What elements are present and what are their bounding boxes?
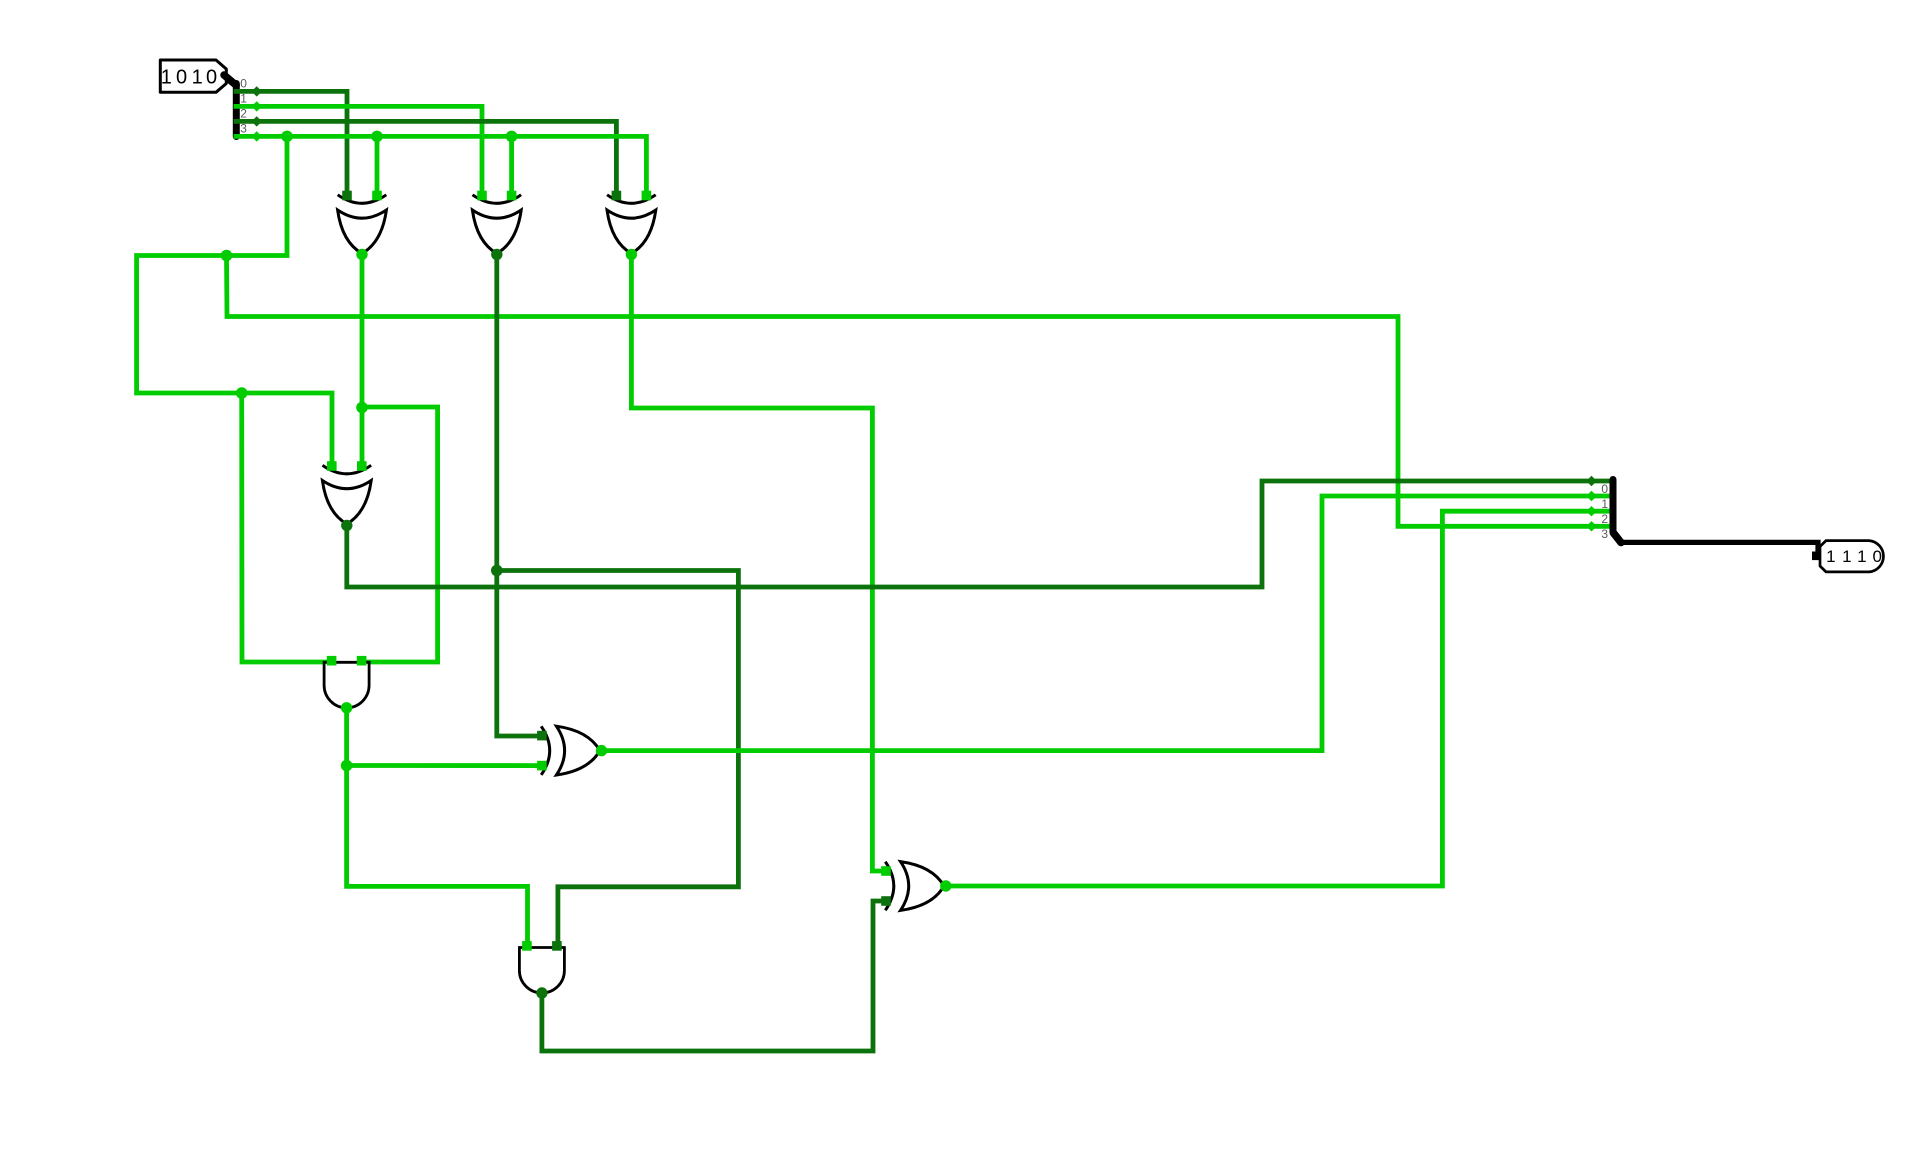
AND U8 input squares [522, 941, 562, 951]
svg-text:0: 0 [176, 67, 187, 89]
splitter S1 pin labels 0-3 [240, 76, 247, 135]
XOR U2 output dot [491, 249, 502, 260]
junction net-P at (241.7,393) [236, 387, 248, 399]
svg-text:0: 0 [240, 76, 247, 90]
wire net-B from XOR2 output down to XOR5 top input [497, 255, 541, 737]
svg-text:1: 1 [1842, 547, 1851, 566]
wire in3 branch to XOR1 right input [375, 136, 380, 197]
svg-text:1: 1 [1857, 547, 1866, 566]
AND U7 output dot [341, 702, 352, 713]
svg-text:0: 0 [1601, 482, 1608, 496]
wire in0 (bit0=0) from splitter to XOR1 left input [236, 91, 347, 197]
AND U8 output dot [536, 987, 547, 998]
junction in3 at (287,136) [281, 131, 293, 143]
XOR gate U5 (inputs net-B, net-F) [541, 726, 600, 775]
XOR U3 input squares [612, 191, 652, 201]
wire net-G (U5 out) to output splitter pin1 [602, 496, 1611, 751]
XOR U4 input squares [327, 461, 367, 471]
wire in2 (bit2=0) from splitter to XOR3 left input [236, 121, 616, 197]
XOR U5 output dot [596, 745, 607, 756]
wire in1 (bit1=1) from splitter to XOR2 left input [236, 106, 482, 197]
wire net-A branch right/down to AND1 right input [362, 407, 438, 662]
svg-text:2: 2 [1601, 512, 1608, 526]
svg-text:1: 1 [192, 67, 203, 89]
junction in3 at (377,136) [371, 131, 383, 143]
svg-text:1: 1 [1601, 497, 1608, 511]
wire in3 branch down at x=287 to left rail [137, 136, 332, 467]
splitter S1 pin1 diamond [252, 101, 262, 111]
XOR U6 input squares [881, 866, 891, 906]
junction net-A at (362,407.5) [356, 402, 368, 414]
XOR U2 input squares [477, 191, 516, 201]
XOR gate U4 (inputs net-P, net-A) [322, 465, 371, 524]
splitter S1 input bus stub (diagonal) [224, 75, 236, 85]
splitter S2 bar [1610, 480, 1617, 533]
svg-text:1: 1 [1826, 547, 1835, 566]
XOR gate U6 (inputs net-C, net-H) [885, 862, 944, 911]
wire net-F branch to XOR5 bottom input [347, 763, 541, 768]
wire net-P branch junction (241.7,393) down to AND1 left input [242, 393, 332, 662]
junction net-B at (497,570.5) [491, 565, 503, 577]
wire net-K (U6 out) to output splitter pin2 [946, 511, 1610, 886]
wire net-B branch to AND2 right input [497, 571, 739, 948]
AND gate U8 (inputs net-F, net-B) [519, 948, 564, 994]
junction in3 at (512,136) [506, 131, 518, 143]
output pin OUT value 1110 (capsule) [1820, 541, 1883, 572]
svg-text:3: 3 [1601, 527, 1608, 541]
splitter S2 pin labels 0-3 [1601, 482, 1608, 541]
wire in3 branch to XOR2 right input [509, 136, 514, 197]
XOR U4 output dot [341, 520, 352, 531]
splitter S2 pin diamonds [1586, 476, 1596, 532]
splitter S1 bar [233, 84, 240, 137]
svg-text:1: 1 [161, 67, 172, 89]
XOR gate U3 (inputs in2,in3) [607, 195, 656, 254]
splitter S2 output stub (diagonal) [1614, 533, 1622, 543]
wire in3 (bit3=1) from splitter to XOR3 right input [236, 136, 646, 197]
splitter S1 pin2 diamond [252, 116, 262, 126]
XOR U1 output dot [356, 249, 367, 260]
wire net-A from XOR1 output down to XOR4 right input [360, 255, 365, 468]
wire net-F (AND1 out) down, right to AND2 left input [347, 708, 528, 947]
svg-text:0: 0 [206, 67, 217, 89]
XOR gate U2 (inputs in1,in3) [472, 195, 521, 254]
XOR U6 output dot [940, 880, 951, 891]
AND gate U7 (inputs net-P, net-A) [324, 662, 369, 708]
junction net-F at (346.6,765.5) [341, 760, 353, 772]
XOR U5 input squares [537, 731, 547, 771]
XOR gate U1 (inputs in0,in3) [338, 195, 387, 254]
wire net-P (in3) junction at (226.5,255.5) down and long run to output splitter pin3 [227, 256, 1611, 527]
splitter S1 pin3 diamond [252, 131, 262, 141]
svg-text:0: 0 [1872, 547, 1881, 566]
AND U7 input squares [327, 656, 367, 666]
splitter S1 pin0 diamond [252, 86, 262, 96]
junction net-P at (226.5,255.5) [221, 250, 233, 262]
wire net-E (U4 out) to output splitter pin0 [347, 481, 1610, 587]
XOR U1 input squares [342, 191, 382, 201]
wire net-C from XOR3 output to XOR6 top input [631, 255, 885, 872]
output pin connector square [1812, 552, 1821, 561]
input pin IN value 1010 (tag shape) [160, 60, 226, 92]
bus wire from splitter S2 to output pin [1621, 542, 1818, 555]
XOR U3 output dot [626, 249, 637, 260]
wire net-H (AND2 out) to XOR6 bottom input [542, 901, 885, 1051]
